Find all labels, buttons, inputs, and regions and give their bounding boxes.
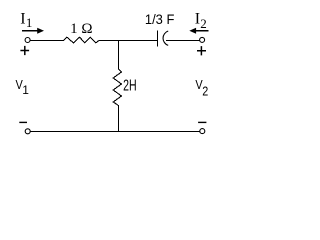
wire bottom [31, 131, 200, 133]
wire middle segment [99, 40, 157, 42]
svg-text:2: 2 [200, 16, 207, 31]
wire vertical stub top [118, 41, 120, 70]
minus sign bottom-right [198, 121, 206, 123]
svg-text:1: 1 [22, 83, 29, 97]
resistor R 1 ohm [64, 37, 99, 43]
terminal top-left [25, 38, 30, 43]
svg-text:1: 1 [26, 15, 33, 30]
minus sign bottom-left [19, 121, 27, 123]
svg-text:2: 2 [202, 83, 208, 98]
terminal bottom-right [200, 129, 205, 134]
terminal top-right [200, 37, 205, 42]
wire top-left segment [31, 40, 64, 42]
wire top-right segment [166, 40, 200, 42]
current arrow I1 [22, 30, 39, 32]
inductor L 2H [113, 69, 121, 105]
plus sign top-left [20, 46, 29, 55]
current arrow I2 [195, 30, 209, 32]
terminal bottom-left [25, 129, 30, 134]
plus sign top-right [197, 46, 206, 55]
svg-text:1 Ω: 1 Ω [70, 21, 92, 37]
svg-text:2H: 2H [123, 78, 137, 95]
wire vertical stub bottom [118, 105, 120, 132]
capacitor C 1/3 F left plate [157, 30, 159, 46]
svg-text:1/3 F: 1/3 F [145, 11, 175, 27]
svg-text:I: I [20, 10, 25, 27]
capacitor C 1/3 F curved plate [163, 31, 168, 45]
